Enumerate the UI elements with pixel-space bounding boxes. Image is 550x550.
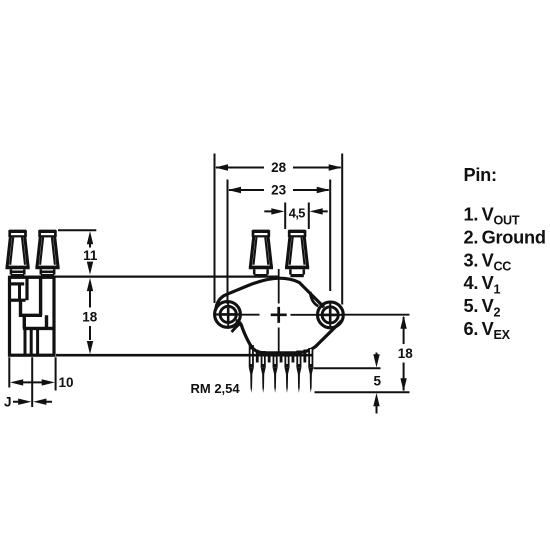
lead bar 1-2 [256, 350, 259, 363]
dimension 11 [89, 243, 91, 266]
dimension 23 line with arrows [229, 189, 329, 191]
wire: centerline extension to right 18 dim [341, 314, 410, 316]
port P4 neck bar [41, 270, 54, 273]
dimension 28 line with arrows [216, 167, 341, 169]
side body: step vertical A [39, 277, 42, 315]
lead bar 2-3 [268, 352, 271, 362]
side body: step horizontal H2 [23, 327, 54, 330]
svg-text:6.VEX: 6.VEX [464, 319, 511, 342]
pin 5 [296, 351, 301, 393]
node: horizontal centerline dashes [215, 314, 260, 316]
svg-text:28: 28 [271, 160, 287, 175]
hole left crosshair [216, 301, 241, 329]
wire: extension line 28 left [214, 154, 216, 304]
side body: step vertical V1 [21, 301, 25, 329]
side body: lower-left bar [10, 299, 26, 302]
node: vertical centerline between ports [278, 269, 280, 304]
svg-text:4.V1: 4.V1 [464, 273, 501, 296]
wire: extension line 4,5 right [308, 203, 310, 230]
ear right spur [310, 292, 318, 306]
svg-text:1.VOUT: 1.VOUT [464, 205, 520, 228]
svg-text:2.Ground: 2.Ground [464, 227, 546, 247]
body outline: bottom edge [236, 321, 342, 353]
svg-text:18: 18 [82, 309, 98, 324]
body outline (front view): top edge [216, 278, 324, 309]
svg-text:3.VCC: 3.VCC [464, 250, 512, 273]
dimension 18 right vertical [403, 317, 405, 391]
dimension 10 [21, 381, 44, 383]
pin 6 [308, 348, 313, 393]
wire: 10 dim extension lines [9, 357, 55, 407]
hole right ring [322, 307, 338, 323]
svg-text:11: 11 [83, 248, 98, 263]
pin 4 [285, 352, 290, 393]
dimension 4,5 arrows [264, 210, 327, 212]
lead bar 3-4 [280, 352, 283, 362]
wire: extension line 4,5 left [284, 203, 286, 230]
wire: extension line 23 right [329, 180, 331, 292]
side body: step horizontal H1 [21, 315, 47, 328]
svg-text:18: 18 [398, 346, 414, 361]
node: vertical centerline below cross [278, 328, 280, 353]
wire: extension line bottom shared 18/5 [315, 391, 410, 393]
lead bar 5-6 [303, 350, 306, 363]
dimension 5 arrows [376, 353, 378, 414]
svg-text:23: 23 [271, 183, 287, 198]
lead bar 4-5 [292, 352, 295, 363]
port P3 neck bar [11, 270, 24, 273]
dimension 18 left [89, 290, 91, 340]
ear left spur [232, 324, 240, 332]
port P2 front-right [285, 230, 309, 276]
svg-text:J: J [4, 395, 12, 410]
mounting ear right [318, 302, 344, 328]
svg-text:10: 10 [59, 375, 74, 390]
side body: pin lines [25, 328, 38, 355]
wire: extension line 23 left [227, 180, 229, 305]
port P1 front-left [249, 230, 273, 276]
port P3 side-left [6, 230, 30, 276]
pin 2 [261, 351, 266, 393]
pin 3 [273, 352, 278, 393]
svg-text:RM 2,54: RM 2,54 [191, 381, 241, 396]
wire: extension line 28 right [341, 154, 343, 305]
wire: body-top long line [10, 276, 279, 278]
hole left ring [220, 306, 236, 322]
side body outline [10, 277, 55, 355]
svg-text:5.V2: 5.V2 [464, 296, 501, 319]
svg-text:4,5: 4,5 [289, 206, 305, 221]
wire: extension line top of 5 dim [314, 367, 381, 369]
wire: port-top level line (11 ext) [58, 229, 96, 231]
hole right crosshair [318, 301, 343, 329]
svg-text:Pin:: Pin: [464, 165, 497, 185]
node: center cross [271, 307, 287, 323]
wire: seating plane long line [56, 354, 313, 357]
svg-text:5: 5 [374, 374, 382, 389]
mounting ear left [215, 302, 241, 328]
side body: mid vertical [25, 277, 28, 300]
side body: divider [18, 284, 21, 300]
port P4 side-right [35, 230, 59, 276]
side body: bar under left port [10, 282, 25, 285]
pin 1 [249, 345, 254, 393]
dimension J arrows [13, 401, 52, 403]
